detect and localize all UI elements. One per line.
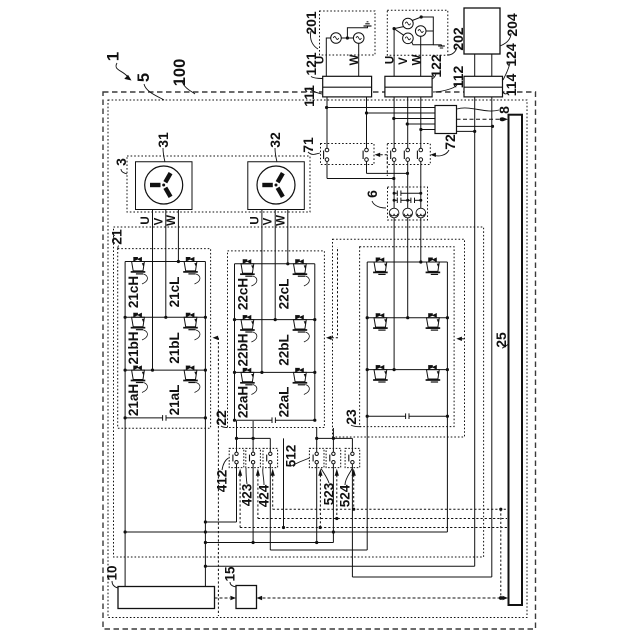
svg-text:U: U <box>140 216 152 224</box>
svg-text:524: 524 <box>338 484 353 507</box>
svg-text:124: 124 <box>503 43 519 67</box>
svg-text:21aL: 21aL <box>167 385 182 416</box>
svg-text:22bH: 22bH <box>236 333 251 366</box>
svg-text:U: U <box>385 56 397 64</box>
svg-text:21bL: 21bL <box>167 332 182 364</box>
svg-text:5: 5 <box>135 73 153 82</box>
svg-text:424: 424 <box>257 484 272 507</box>
svg-text:6: 6 <box>364 190 380 198</box>
svg-text:U: U <box>249 216 261 224</box>
svg-text:21: 21 <box>109 229 125 245</box>
svg-text:32: 32 <box>267 132 283 148</box>
svg-text:100: 100 <box>171 59 189 87</box>
svg-text:22aL: 22aL <box>277 387 292 418</box>
svg-text:204: 204 <box>504 13 520 37</box>
svg-text:V: V <box>153 217 165 225</box>
svg-text:21aH: 21aH <box>126 384 141 416</box>
svg-text:21cH: 21cH <box>126 276 141 308</box>
svg-text:V: V <box>398 57 410 65</box>
svg-text:23: 23 <box>343 409 359 425</box>
svg-text:202: 202 <box>450 27 466 51</box>
svg-text:21cL: 21cL <box>167 277 182 308</box>
svg-text:10: 10 <box>105 565 120 580</box>
svg-text:W: W <box>349 54 361 65</box>
svg-text:22cL: 22cL <box>277 279 292 310</box>
svg-text:72: 72 <box>442 134 458 150</box>
svg-text:U: U <box>315 56 327 64</box>
svg-text:15: 15 <box>223 566 238 582</box>
svg-text:423: 423 <box>240 483 255 506</box>
svg-text:W: W <box>411 54 423 65</box>
svg-text:22: 22 <box>213 410 229 426</box>
svg-text:112: 112 <box>450 65 466 88</box>
svg-text:1: 1 <box>104 52 123 61</box>
svg-text:22aH: 22aH <box>236 386 251 418</box>
svg-text:W: W <box>166 215 178 226</box>
svg-text:W: W <box>275 215 287 226</box>
svg-text:114: 114 <box>503 73 519 96</box>
svg-text:V: V <box>263 217 275 225</box>
svg-text:71: 71 <box>300 137 316 153</box>
svg-text:3: 3 <box>113 158 129 166</box>
svg-text:21bH: 21bH <box>126 331 141 364</box>
svg-text:523: 523 <box>322 482 337 505</box>
svg-text:31: 31 <box>155 132 171 148</box>
svg-text:412: 412 <box>215 470 230 493</box>
svg-text:22bL: 22bL <box>277 334 292 366</box>
svg-text:22cH: 22cH <box>236 278 251 310</box>
